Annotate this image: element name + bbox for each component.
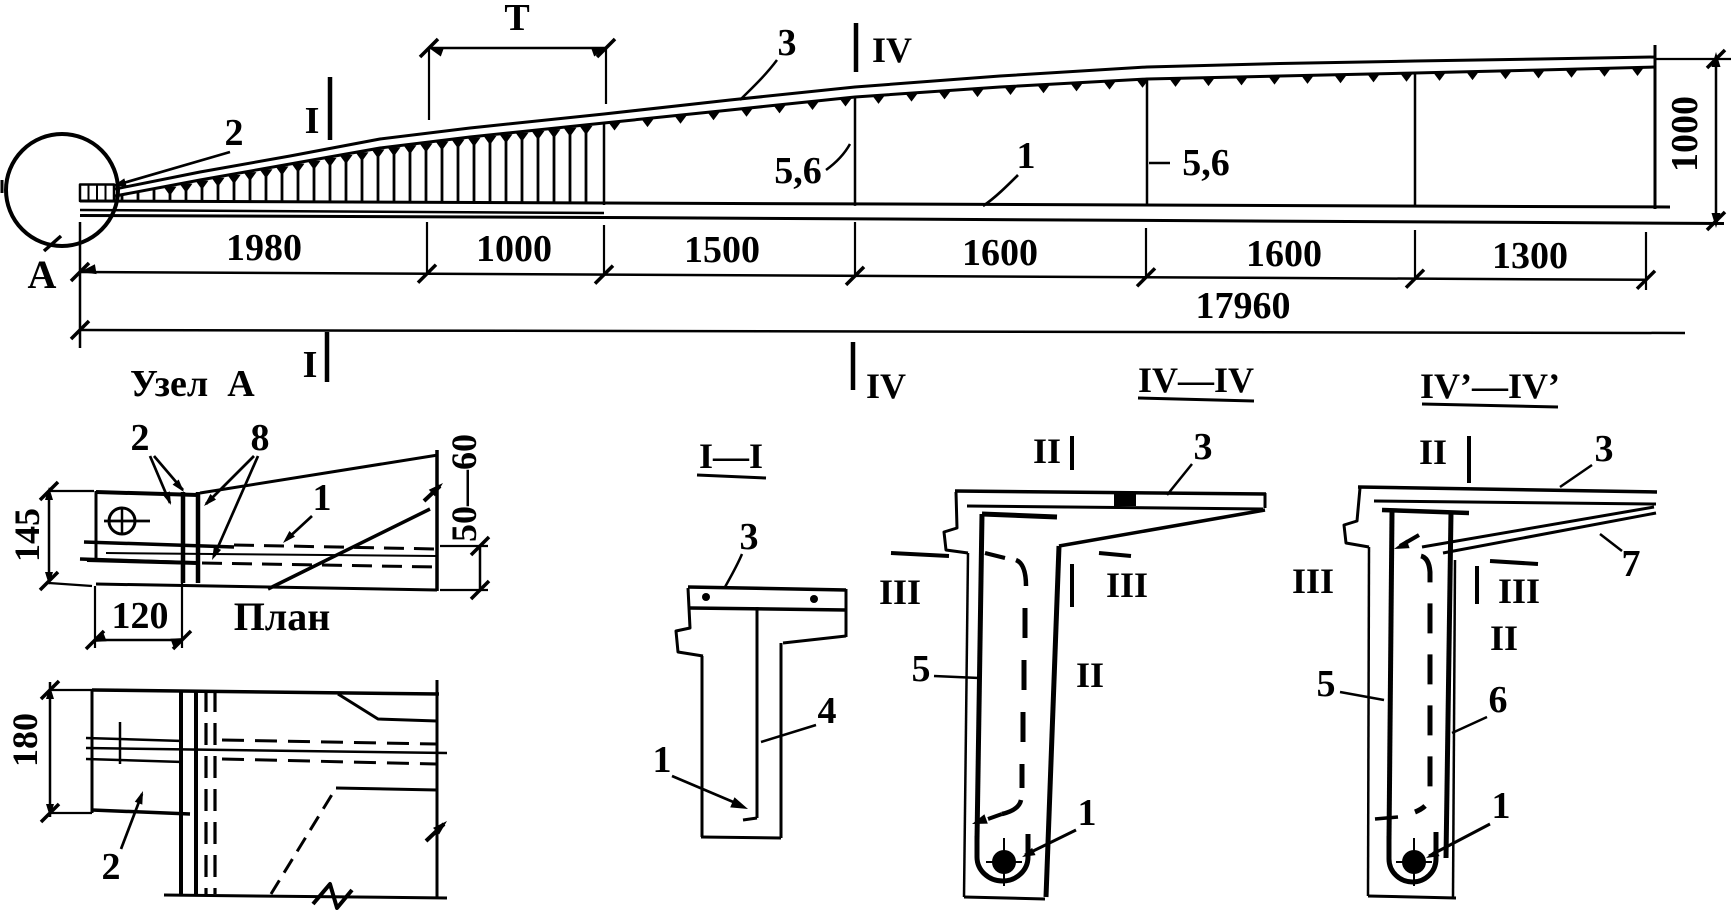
IV-IV heavy left xyxy=(977,514,982,840)
IV-IV outer bottom xyxy=(964,897,1045,899)
IV-IV stirrup dashed xyxy=(985,553,1005,558)
svg-text:III: III xyxy=(879,572,921,612)
dim tick x80 xyxy=(71,263,89,281)
T tick left xyxy=(420,39,438,57)
plan bottom edge xyxy=(164,895,447,898)
I-I rebar dot left xyxy=(702,593,710,601)
IV-IV slab bottom xyxy=(967,506,1263,509)
svg-text:1000: 1000 xyxy=(476,228,552,270)
dim line total xyxy=(80,330,1685,333)
svg-text:1000: 1000 xyxy=(1664,96,1706,172)
plan rib right xyxy=(194,690,198,894)
plan dashed rib a xyxy=(204,690,207,894)
uzelA NE arrow xyxy=(424,486,440,501)
svg-text:180: 180 xyxy=(5,713,45,767)
I-I web left edge xyxy=(701,656,704,837)
IV-IV outer left xyxy=(964,553,968,897)
plan dashed rib b xyxy=(213,690,216,894)
plan cut dashed diagonal xyxy=(271,788,336,894)
dim 50-60 ext top xyxy=(440,545,488,547)
IVp haunch diagonal 2 xyxy=(1443,513,1656,553)
bottom slab bottom line xyxy=(80,216,1724,224)
svg-text:II: II xyxy=(1033,431,1061,471)
right top extension line xyxy=(1655,58,1731,60)
plan top edge xyxy=(92,690,439,694)
dim 120 ticks xyxy=(86,631,104,649)
IVp outer bottom xyxy=(1368,896,1456,898)
uzelA block bottom xyxy=(87,560,198,563)
svg-text:IV’—IV’: IV’—IV’ xyxy=(1420,366,1560,406)
dim tick x427 xyxy=(418,265,436,283)
bottom slab middle line xyxy=(80,210,604,213)
svg-text:I: I xyxy=(305,100,320,142)
IV-IV haunch diagonal xyxy=(1059,510,1265,546)
IV-IV heavy right xyxy=(1046,546,1059,897)
ext x1146 xyxy=(1145,228,1147,277)
dim line 1 xyxy=(80,272,1646,280)
dim 120 ext right xyxy=(181,565,183,648)
uzelA block top xyxy=(96,492,198,495)
IV-IV stirrup arrow xyxy=(988,814,1002,819)
ext x604 xyxy=(603,225,605,275)
svg-text:5: 5 xyxy=(1317,663,1336,705)
division line x604 xyxy=(603,123,606,205)
IVp outer right xyxy=(1453,560,1455,897)
ext x427 xyxy=(426,222,428,274)
svg-text:1: 1 xyxy=(1017,135,1036,177)
IV-IV beak xyxy=(944,492,968,553)
IVp heavy right xyxy=(1446,512,1451,858)
dim 145 ext bottom xyxy=(49,583,92,586)
dim tick x855 xyxy=(846,267,864,285)
detail callout circle A xyxy=(6,134,118,246)
top chord lower line xyxy=(115,67,1655,196)
T dimension line xyxy=(429,47,606,50)
dim 120 line xyxy=(95,639,182,642)
plan rod line bottom xyxy=(86,759,183,762)
plan bolt tick xyxy=(119,722,122,764)
T extension right xyxy=(605,48,607,104)
dim 50-60 line xyxy=(479,546,482,590)
IVp outer left xyxy=(1368,547,1369,896)
IV-IV rebar dot xyxy=(992,850,1016,874)
svg-text:III: III xyxy=(1106,565,1148,605)
IVp junction arrow xyxy=(1400,535,1419,546)
I-I flange bottom line xyxy=(690,608,846,610)
svg-text:IV—IV: IV—IV xyxy=(1138,360,1254,400)
dim 50-60 ext bottom xyxy=(440,589,488,591)
IVp beak xyxy=(1344,488,1369,547)
ext x855 xyxy=(854,222,856,276)
svg-text:5,6: 5,6 xyxy=(1182,142,1230,184)
I-I web right edge xyxy=(780,643,783,838)
dim tick x1146 xyxy=(1137,268,1155,286)
section mark I top xyxy=(328,77,333,140)
ext x1415 xyxy=(1414,230,1416,279)
svg-text:А: А xyxy=(28,252,57,297)
dim tick x604 xyxy=(595,266,613,284)
uzelA rib left line xyxy=(181,492,186,583)
svg-text:3: 3 xyxy=(1595,428,1614,470)
IVp haunch diagonal 1 xyxy=(1422,507,1654,547)
svg-text:17960: 17960 xyxy=(1196,285,1291,327)
svg-text:II: II xyxy=(1076,655,1104,695)
plan bottom break zigzag xyxy=(313,884,352,908)
uzelA right edge xyxy=(435,450,439,591)
svg-text:I: I xyxy=(303,344,318,386)
svg-text:50—60: 50—60 xyxy=(444,434,484,542)
svg-text:145: 145 xyxy=(7,508,47,562)
T tick right xyxy=(597,39,615,57)
I-I right edge xyxy=(845,589,848,637)
I-I web bottom xyxy=(701,837,781,838)
svg-text:5: 5 xyxy=(912,648,931,690)
section mark IV top xyxy=(854,23,859,72)
callout circle tick xyxy=(44,236,61,251)
plan dashed flange bottom xyxy=(222,759,436,764)
dim 145 ext top xyxy=(49,490,94,492)
vert dim line 1000 xyxy=(1715,58,1718,222)
IV-IV U bottom xyxy=(977,834,1028,881)
chord underside dots xyxy=(609,123,621,131)
svg-text:План: План xyxy=(234,594,331,639)
svg-text:Т: Т xyxy=(504,0,529,39)
dim 180 ext top xyxy=(50,689,92,691)
beam right edge xyxy=(1654,45,1657,209)
division line x855 (IV) xyxy=(854,97,857,206)
dim 180 ticks xyxy=(41,681,59,699)
plan rod axis xyxy=(86,748,447,753)
svg-text:8: 8 xyxy=(251,417,270,459)
I-I flange underside right xyxy=(783,636,846,643)
left edge stub xyxy=(1,180,4,193)
uzelA bolt circle xyxy=(109,508,135,534)
svg-text:1: 1 xyxy=(1492,785,1511,827)
IVp stirrup dashed xyxy=(1415,556,1430,812)
uzelA rib right line xyxy=(196,492,201,583)
hatch teeth xyxy=(164,187,177,196)
svg-text:III: III xyxy=(1498,571,1540,611)
svg-text:6: 6 xyxy=(1489,679,1508,721)
svg-text:7: 7 xyxy=(1622,543,1641,585)
IVp heavy left xyxy=(1389,512,1392,841)
svg-text:2: 2 xyxy=(131,417,150,459)
svg-text:3: 3 xyxy=(740,516,759,558)
svg-text:1980: 1980 xyxy=(226,227,302,269)
uzelA plank top solid xyxy=(84,542,234,547)
plan block left xyxy=(91,690,94,813)
uzelA break diagonal xyxy=(268,509,430,589)
svg-text:1: 1 xyxy=(653,739,672,781)
uzelA plank top dashed xyxy=(234,545,437,549)
dim arrow A xyxy=(80,264,97,274)
top chord upper line xyxy=(115,57,1655,189)
I-I flange top xyxy=(688,587,846,590)
dim 145 line xyxy=(48,491,51,581)
ext x1646 xyxy=(1645,232,1647,290)
I-I rebar dot right xyxy=(810,595,818,603)
svg-text:1: 1 xyxy=(1078,792,1097,834)
svg-text:1: 1 xyxy=(313,477,332,519)
plan chord diagonal xyxy=(338,694,437,721)
plan cut line horizontal xyxy=(336,788,437,790)
uzelA plank bottom solid xyxy=(80,559,198,563)
svg-text:IV: IV xyxy=(872,30,912,70)
IVp slab top xyxy=(1358,487,1657,492)
svg-text:120: 120 xyxy=(112,595,169,637)
plan rib left xyxy=(179,690,183,894)
svg-text:1600: 1600 xyxy=(1246,233,1322,275)
uzelA plank bottom dashed xyxy=(202,563,437,567)
plan right break arrow xyxy=(426,824,444,841)
svg-text:1300: 1300 xyxy=(1492,235,1568,277)
total tick left xyxy=(71,321,89,339)
dim 180 ext bottom xyxy=(50,812,92,814)
division line x1415 xyxy=(1414,74,1417,207)
uzelA top chord line xyxy=(200,455,438,493)
svg-text:1500: 1500 xyxy=(684,229,760,271)
svg-text:II: II xyxy=(1490,618,1518,658)
svg-text:4: 4 xyxy=(818,690,837,732)
svg-text:2: 2 xyxy=(102,846,121,888)
I-I inner web line 4 xyxy=(756,607,759,818)
svg-text:Узел А: Узел А xyxy=(130,363,255,405)
IVp heavy horizontal xyxy=(1382,510,1469,513)
dim 50-60 ticks xyxy=(471,537,489,555)
dim 145 ticks xyxy=(40,482,58,500)
svg-text:3: 3 xyxy=(1194,426,1213,468)
hatch ribs xyxy=(121,196,124,202)
svg-text:1600: 1600 xyxy=(962,232,1038,274)
uzelA block left xyxy=(95,491,98,562)
division line x1147 xyxy=(1146,80,1149,206)
IV-IV slab tip xyxy=(1264,493,1267,508)
plan dashed flange top xyxy=(222,740,436,744)
IVp left tick xyxy=(1375,817,1398,819)
svg-text:III: III xyxy=(1292,561,1334,601)
IV-IV slab black patch xyxy=(1114,494,1136,506)
svg-text:3: 3 xyxy=(778,22,797,64)
I-I beak xyxy=(676,588,703,656)
IVp rebar dot xyxy=(1402,850,1426,874)
bottom slab top line xyxy=(80,201,1670,207)
svg-text:IV: IV xyxy=(866,366,906,406)
plan right edge xyxy=(436,680,439,897)
IVp slab second line xyxy=(1374,501,1656,504)
uzelA bottom edge xyxy=(96,584,437,590)
plan block bottom xyxy=(92,810,190,814)
IVp U bottom xyxy=(1389,832,1436,882)
IV-IV heavy horizontal xyxy=(982,514,1057,517)
svg-text:II: II xyxy=(1419,432,1447,472)
IV-IV slab top xyxy=(955,491,1266,494)
dim tick x1415 xyxy=(1406,270,1424,288)
ext x80 down xyxy=(79,222,82,348)
T extension left xyxy=(428,48,430,120)
plan rod line top xyxy=(86,738,183,741)
svg-text:5,6: 5,6 xyxy=(774,150,822,192)
dim 180 line xyxy=(49,682,52,817)
section mark I bottom xyxy=(325,332,330,382)
dim 120 ext left xyxy=(94,586,96,648)
beam left end anchor box xyxy=(80,185,114,202)
dim tick x1646 xyxy=(1637,271,1655,289)
svg-text:I—I: I—I xyxy=(699,436,763,476)
uzelA rod axis line xyxy=(106,553,436,556)
svg-text:2: 2 xyxy=(225,112,244,154)
vert dim arrows xyxy=(1707,50,1725,68)
section mark IV bottom xyxy=(851,342,856,390)
